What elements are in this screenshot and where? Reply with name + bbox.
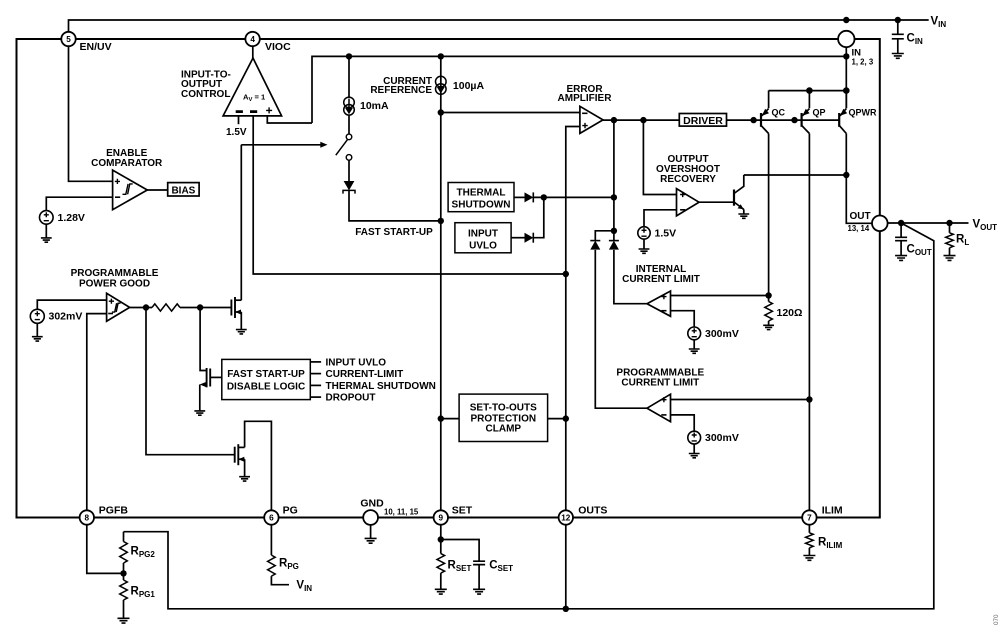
wire OOR output xyxy=(699,201,734,203)
ground RSET xyxy=(435,589,447,594)
svg-text:BIAS: BIAS xyxy=(171,185,195,196)
pin GND 10,11,15 xyxy=(363,510,378,525)
pin 5 EN/UV xyxy=(61,32,75,46)
source 1.5V xyxy=(638,227,650,239)
resistor RILIM xyxy=(808,525,810,533)
wire SET pin down xyxy=(440,525,442,554)
transistor OOR follower xyxy=(733,190,735,206)
ground RL xyxy=(944,256,956,261)
svg-text:COMPARATOR: COMPARATOR xyxy=(91,158,163,169)
wire error amp minus input xyxy=(441,112,580,114)
node RL junction xyxy=(946,220,952,226)
svg-text:REFERENCE: REFERENCE xyxy=(370,85,432,96)
op-amp input-to-output control xyxy=(223,58,282,116)
svg-text:070: 070 xyxy=(993,614,1000,625)
op-amp error amplifier xyxy=(580,106,603,133)
node QP emitter junction xyxy=(806,87,813,94)
block THERMAL SHUTDOWN xyxy=(448,183,514,212)
svg-text:PGFB: PGFB xyxy=(99,505,129,517)
svg-text:GND: GND xyxy=(360,498,384,510)
svg-text:CONTROL: CONTROL xyxy=(181,89,230,100)
resistor RL xyxy=(949,223,951,233)
wire error amp plus input xyxy=(566,127,580,511)
wire logic flag DROPOUT xyxy=(310,396,321,398)
pin 12 OUTS xyxy=(559,510,573,524)
diode clamp left xyxy=(590,241,600,250)
wire fast start-up branch xyxy=(348,56,350,97)
diode thermal shutdown xyxy=(525,192,534,202)
ground 300mV programmable xyxy=(689,454,700,458)
svg-text:1, 2, 3: 1, 2, 3 xyxy=(852,57,874,66)
svg-text:QP: QP xyxy=(813,107,826,117)
wire power good plus to 302mV xyxy=(37,300,106,309)
svg-text:CURRENT-LIMIT: CURRENT-LIMIT xyxy=(326,369,404,380)
svg-text:300mV: 300mV xyxy=(705,432,739,444)
svg-text:302mV: 302mV xyxy=(49,311,83,323)
comparator enable xyxy=(113,170,148,210)
svg-text:PROGRAMMABLE: PROGRAMMABLE xyxy=(71,268,159,279)
wire logic flag CURRENT-LIMIT xyxy=(310,373,321,375)
node 120ohm junction xyxy=(765,292,771,298)
node thermal diode junction xyxy=(541,194,547,200)
wire internal limit minus xyxy=(671,311,695,328)
node error rail thermal junction xyxy=(611,194,617,200)
wire switch control arrow xyxy=(241,144,321,146)
wire OOR collector to OUT rail xyxy=(744,174,847,176)
svg-text:THERMAL SHUTDOWN: THERMAL SHUTDOWN xyxy=(326,381,436,392)
ground M2 xyxy=(194,411,205,415)
wire pin4 to VIOC amp xyxy=(252,46,254,58)
svg-text:5: 5 xyxy=(66,35,71,44)
svg-text:INPUT: INPUT xyxy=(468,229,498,240)
svg-text:12: 12 xyxy=(561,513,571,522)
diode clamp right xyxy=(609,241,619,250)
source 300mV internal xyxy=(688,327,701,340)
IC boundary border xyxy=(17,39,880,518)
svg-text:DROPOUT: DROPOUT xyxy=(326,393,376,404)
svg-text:7: 7 xyxy=(807,513,812,522)
pin 9 SET xyxy=(434,510,448,524)
source 302mV xyxy=(30,309,44,323)
wire M3 source to ground xyxy=(244,459,246,477)
block FAST START-UP DISABLE LOGIC xyxy=(222,359,310,399)
wire QC emitter drop xyxy=(768,90,770,92)
resistor RPG xyxy=(270,525,272,555)
node error out junction 1 xyxy=(611,117,617,123)
pin IN 1,2,3 xyxy=(838,31,854,47)
svg-text:1.5V: 1.5V xyxy=(226,127,247,138)
wire emitter rail xyxy=(769,90,847,92)
wire logic flag INPUT UVLO xyxy=(310,361,321,363)
svg-text:1.28V: 1.28V xyxy=(58,212,85,224)
wire QP collector xyxy=(808,134,810,511)
ground M3 xyxy=(239,477,250,481)
ground 300mV internal xyxy=(689,349,700,353)
svg-text:THERMAL: THERMAL xyxy=(457,188,506,199)
wire VOUT line xyxy=(888,222,969,224)
source 300mV programmable xyxy=(688,431,701,444)
svg-text:10mA: 10mA xyxy=(360,100,389,112)
node prog limit ILIM junction xyxy=(806,396,812,402)
svg-text:8: 8 xyxy=(85,513,90,522)
node QC base junction xyxy=(750,117,756,123)
source 1.28V xyxy=(40,211,54,225)
node clamp diodes junction xyxy=(611,228,617,234)
transistor M3 PG pulldown xyxy=(234,447,236,463)
svg-text:120Ω: 120Ω xyxy=(777,307,803,319)
svg-text:DISABLE LOGIC: DISABLE LOGIC xyxy=(227,381,305,392)
ground CSET xyxy=(473,589,485,594)
wire comparator minus to 1.28V xyxy=(46,197,112,211)
wire M1 source to ground xyxy=(240,312,242,330)
svg-text:OUTS: OUTS xyxy=(578,505,607,517)
node QPWR emitter junction xyxy=(843,87,850,94)
wire error amp output xyxy=(603,119,679,121)
wire thermal shutdown out xyxy=(514,196,525,198)
svg-text:EN/UV: EN/UV xyxy=(80,41,112,53)
transistor QC xyxy=(768,91,770,109)
wire fast start-up to SET rail xyxy=(349,190,441,221)
node IN supply tap xyxy=(843,53,849,59)
pin 4 VIOC xyxy=(245,32,259,46)
svg-text:FAST START-UP: FAST START-UP xyxy=(227,369,305,380)
wire OOR plus input xyxy=(643,120,676,194)
svg-text:DRIVER: DRIVER xyxy=(683,115,723,127)
svg-text:AMPLIFIER: AMPLIFIER xyxy=(558,93,613,104)
wire M2 gate from logic box xyxy=(210,376,222,378)
block INPUT UVLO xyxy=(455,223,511,253)
svg-text:CLAMP: CLAMP xyxy=(486,424,522,435)
node OUTS bottom junction xyxy=(563,606,569,612)
svg-text:9: 9 xyxy=(439,513,444,522)
capacitor COUT xyxy=(900,223,902,237)
block DRIVER xyxy=(679,114,726,127)
VIOC amp input marks xyxy=(236,110,258,113)
svg-text:SET: SET xyxy=(452,505,473,517)
wire to CSET xyxy=(441,540,479,562)
switch fast start-up xyxy=(346,134,352,140)
wire clamp link xyxy=(595,231,614,241)
node RPG1 RPG2 junction xyxy=(120,570,126,576)
svg-text:CURRENT LIMIT: CURRENT LIMIT xyxy=(622,274,700,285)
wire prog limit minus xyxy=(671,415,695,432)
wire M3 drain to PG pin xyxy=(245,421,272,510)
svg-text:QC: QC xyxy=(772,107,786,117)
ground 120ohm xyxy=(763,325,774,329)
node OUT overshoot tap xyxy=(843,172,849,178)
capacitor CIN xyxy=(897,20,899,34)
ground CIN xyxy=(892,54,904,59)
node fast start-up SET junction xyxy=(438,218,444,224)
ground 1.28V xyxy=(41,238,52,242)
transistor QPWR xyxy=(845,91,847,109)
wire supply line y56 xyxy=(312,56,846,123)
diode input UVLO xyxy=(525,233,534,243)
wire M2 source to ground xyxy=(200,382,207,387)
svg-text:CURRENT LIMIT: CURRENT LIMIT xyxy=(621,378,699,389)
wire M2 drain from PG out xyxy=(200,308,207,371)
svg-text:1.5V: 1.5V xyxy=(655,228,677,240)
transistor M1 fast start-up control xyxy=(230,300,232,316)
wire PGFB to divider xyxy=(87,525,124,574)
svg-text:6: 6 xyxy=(269,513,274,522)
pin 8 PGFB xyxy=(80,510,94,524)
wire SET rail xyxy=(440,56,442,510)
resistor power good gate xyxy=(152,304,180,311)
svg-text:100µA: 100µA xyxy=(453,80,485,92)
resistor RPG2 xyxy=(123,532,125,542)
wire left clamp to prog limit xyxy=(595,250,647,408)
ground M1 xyxy=(236,330,247,334)
node OUTS-VIOC junction xyxy=(563,271,569,277)
capacitor CSET xyxy=(473,561,485,564)
svg-text:POWER GOOD: POWER GOOD xyxy=(79,279,150,290)
wire UVLO diode to junction xyxy=(533,197,544,237)
wire OOR minus to 1.5V xyxy=(644,210,677,227)
ground 302mV xyxy=(32,337,43,341)
node RSET CSET junction xyxy=(438,536,444,542)
transistor M2 disable logic xyxy=(206,368,208,387)
diode schottky fast start-up xyxy=(348,160,350,181)
node PG out junction 2 xyxy=(197,304,203,310)
node COUT junction xyxy=(898,220,904,226)
node fast-startup supply tap xyxy=(346,53,352,59)
node PG out junction 1 xyxy=(143,304,149,310)
wire OUTS sense feedback xyxy=(124,223,934,609)
ground RPG1 xyxy=(118,618,130,623)
node VIN junction at CIN xyxy=(895,17,901,23)
pin 6 PG xyxy=(264,510,278,524)
wire clamp left xyxy=(441,418,459,420)
node OUTS-clamp junction xyxy=(563,415,569,421)
node VIN junction at IN xyxy=(843,17,849,23)
wire prog limit plus input xyxy=(671,399,810,401)
wire VIOC plus to IN supply xyxy=(267,116,312,123)
svg-text:10, 11, 15: 10, 11, 15 xyxy=(384,507,419,516)
node current-reference supply tap xyxy=(438,53,444,59)
wire VIN rail xyxy=(69,20,929,32)
node QP base junction xyxy=(791,117,797,123)
wire comparator output to BIAS xyxy=(147,189,167,191)
svg-text:SHUTDOWN: SHUTDOWN xyxy=(452,200,511,211)
resistor RPG1 xyxy=(123,573,125,580)
svg-text:300mV: 300mV xyxy=(705,328,739,340)
comparator power good xyxy=(107,293,130,321)
wire driver to bases xyxy=(727,119,840,121)
op-amp programmable current limit xyxy=(647,394,671,422)
current source 100uA xyxy=(436,76,447,87)
svg-text:RECOVERY: RECOVERY xyxy=(660,174,716,185)
pin OUT 13,14 xyxy=(872,216,888,232)
node clamp SET junction xyxy=(438,415,444,421)
wire RPG to VIN xyxy=(271,576,289,585)
block SET-TO-OUTS PROTECTION CLAMP xyxy=(459,394,547,441)
wire IN rail down xyxy=(845,47,847,108)
svg-text:13, 14: 13, 14 xyxy=(848,224,870,233)
pin 7 ILIM xyxy=(802,510,816,524)
node error out junction 2 xyxy=(640,117,646,123)
wire VIOC 1.5V stub xyxy=(238,116,240,124)
ground GND pin xyxy=(370,525,372,539)
wire M1 drain to switch arrow xyxy=(240,145,242,300)
current source 10mA xyxy=(344,97,355,108)
transistor QP xyxy=(808,91,810,109)
svg-text:INPUT UVLO: INPUT UVLO xyxy=(326,358,387,369)
node set rail to error amp xyxy=(438,109,444,115)
resistor RSET xyxy=(437,554,445,574)
resistor 120ohm xyxy=(768,296,770,302)
wire logic flag THERMAL SHUTDOWN xyxy=(310,384,321,386)
svg-text:VIOC: VIOC xyxy=(265,41,291,53)
wire QC collector xyxy=(768,134,770,296)
wire right clamp to internal limit xyxy=(614,250,647,304)
op-amp output overshoot recovery xyxy=(677,189,700,216)
wire M3 gate from PG out xyxy=(146,308,235,455)
wire error rail down xyxy=(613,120,615,241)
wire OUTS pin down xyxy=(565,525,567,609)
svg-text:OUT: OUT xyxy=(850,211,871,222)
svg-text:4: 4 xyxy=(250,35,255,44)
wire QPWR collector to OUT xyxy=(846,134,872,224)
svg-text:PG: PG xyxy=(283,505,298,517)
svg-text:QPWR: QPWR xyxy=(849,107,877,117)
wire power good minus to PGFB xyxy=(87,314,107,511)
ground RILIM xyxy=(803,556,815,561)
svg-text:FAST START-UP: FAST START-UP xyxy=(355,227,433,238)
op-amp internal current limit xyxy=(647,291,671,316)
svg-text:ILIM: ILIM xyxy=(822,505,843,517)
ground COUT xyxy=(895,256,907,261)
svg-text:SET-TO-OUTS: SET-TO-OUTS xyxy=(470,403,537,414)
wire input UVLO out xyxy=(511,237,524,239)
ground OOR follower xyxy=(738,214,749,218)
ground 1.5V OOR xyxy=(639,249,650,253)
wire power good output xyxy=(130,307,152,309)
block BIAS xyxy=(168,183,199,196)
wire EN/UV to comparator plus xyxy=(69,46,113,181)
svg-text:UVLO: UVLO xyxy=(469,241,497,252)
wire internal limit plus input xyxy=(671,295,769,297)
wire clamp right xyxy=(548,418,566,420)
wire VIOC minus to OUTS xyxy=(253,116,566,274)
